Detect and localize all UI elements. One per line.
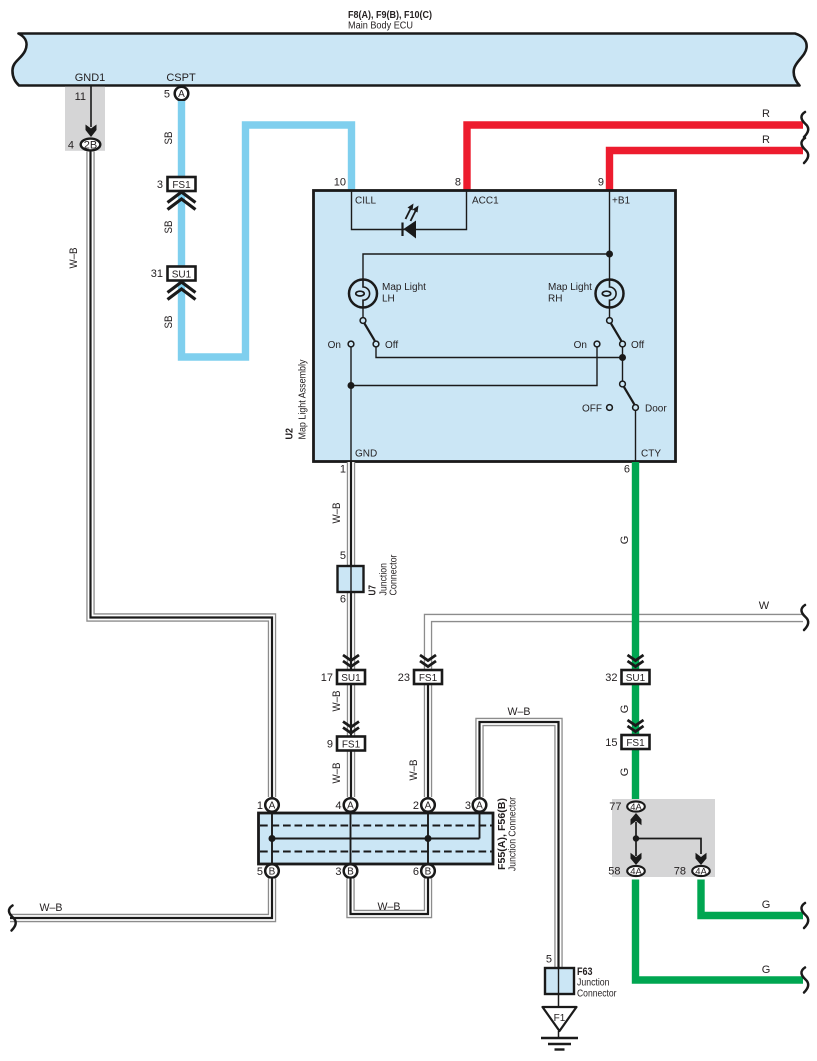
connector U7 junction	[338, 566, 364, 592]
bulb Map Light RH	[596, 280, 624, 308]
chevrons into SU1 (17)	[343, 655, 359, 667]
svg-text:CSPT: CSPT	[166, 72, 196, 84]
svg-text:3: 3	[335, 866, 341, 878]
svg-text:A: A	[269, 801, 276, 812]
wire On bus	[351, 347, 597, 386]
svg-text:G: G	[619, 536, 631, 545]
connector FS1 (15)	[622, 735, 650, 749]
svg-text:2B: 2B	[84, 139, 97, 151]
svg-text:FS1: FS1	[419, 673, 438, 684]
wire G from 58 to right	[636, 880, 804, 981]
chevrons into FS1 (9)	[343, 722, 359, 734]
wire W from right to 2(A)	[428, 618, 803, 670]
wire G from CTY	[632, 462, 639, 800]
gray shield GND1	[65, 87, 105, 151]
svg-text:On: On	[574, 340, 587, 351]
connector 4A (78)	[692, 866, 710, 876]
node junction On bus	[348, 382, 355, 389]
svg-text:SB: SB	[163, 316, 175, 329]
break mark R lower	[801, 138, 808, 163]
svg-text:Connector: Connector	[577, 989, 617, 1000]
wire W-B from 5(B) to left	[10, 879, 272, 919]
svg-text:RH: RH	[548, 294, 562, 305]
wire R upper (ACC1)	[467, 125, 803, 190]
svg-text:8: 8	[455, 177, 461, 189]
svg-text:F55(A), F56(B): F55(A), F56(B)	[497, 798, 508, 870]
svg-text:CILL: CILL	[355, 196, 377, 207]
wire pin4A-3B	[350, 813, 352, 864]
connector SU1 (32)	[622, 670, 650, 684]
svg-text:OFF: OFF	[582, 404, 602, 415]
svg-text:R: R	[762, 134, 770, 146]
svg-text:5: 5	[164, 89, 170, 101]
arrow up to 77	[635, 822, 637, 839]
connector F63 junction	[545, 968, 574, 994]
svg-text:CTY: CTY	[641, 449, 661, 460]
connector SU1 (17)	[337, 670, 365, 684]
connector 4A (58)	[627, 866, 645, 876]
svg-text:4: 4	[68, 140, 74, 152]
chevrons FS1 (3)	[168, 192, 196, 210]
connector FS1 (3)	[168, 177, 196, 191]
wire G from 78 to right	[701, 880, 803, 916]
svg-text:W–B: W–B	[508, 706, 531, 718]
dashed bus B	[260, 851, 492, 853]
node junction	[269, 835, 276, 842]
connector 4A (77)	[627, 801, 645, 811]
node junction	[425, 835, 432, 842]
svg-text:SB: SB	[163, 132, 175, 145]
svg-text:Junction: Junction	[577, 978, 610, 989]
switch OFF/Door	[620, 381, 626, 387]
svg-text:6: 6	[340, 594, 346, 606]
svg-text:6: 6	[624, 464, 630, 476]
wire W-B from 3(A) to F63	[480, 722, 559, 968]
svg-text:+B1: +B1	[612, 196, 631, 207]
svg-text:On: On	[328, 340, 341, 351]
wire W-B from 2B to 1(A)	[91, 152, 273, 798]
svg-text:SU1: SU1	[626, 673, 646, 684]
svg-text:1: 1	[257, 800, 263, 812]
svg-text:G: G	[762, 964, 771, 976]
svg-text:10: 10	[334, 177, 346, 189]
svg-text:Map Light: Map Light	[382, 282, 426, 293]
svg-text:W–B: W–B	[378, 901, 401, 913]
node junction Off bus	[619, 354, 626, 361]
svg-text:W–B: W–B	[331, 691, 343, 712]
svg-text:Connector: Connector	[389, 554, 400, 596]
svg-text:W: W	[759, 600, 770, 612]
svg-text:Off: Off	[631, 340, 644, 351]
svg-text:W–B: W–B	[408, 760, 420, 781]
svg-text:5: 5	[546, 954, 552, 966]
chevrons into FS1 (23)	[420, 655, 436, 667]
svg-text:11: 11	[75, 91, 86, 103]
wire Off bus	[376, 347, 623, 358]
svg-text:FS1: FS1	[626, 738, 645, 749]
bulb Map Light LH	[349, 280, 377, 308]
svg-text:17: 17	[321, 672, 333, 684]
svg-text:78: 78	[674, 866, 686, 878]
break mark R upper	[801, 112, 808, 137]
svg-text:F63: F63	[577, 966, 593, 978]
svg-text:W–B: W–B	[68, 248, 80, 269]
svg-text:W–B: W–B	[331, 763, 343, 784]
box U2 Map Light Assembly	[314, 191, 676, 462]
junction connector F55/F56 box	[259, 813, 494, 864]
svg-text:U7: U7	[368, 585, 379, 596]
svg-text:4A: 4A	[630, 867, 642, 878]
wire pin2A-6B	[427, 813, 429, 864]
svg-text:GND: GND	[355, 449, 377, 460]
svg-text:4A: 4A	[695, 867, 707, 878]
svg-text:Off: Off	[385, 340, 398, 351]
svg-text:2: 2	[413, 800, 419, 812]
svg-text:F1: F1	[554, 1013, 566, 1024]
svg-text:SU1: SU1	[172, 270, 192, 281]
break mark G lower	[801, 968, 808, 993]
svg-text:A: A	[476, 801, 483, 812]
switch LH On/Off	[362, 309, 364, 318]
svg-text:FS1: FS1	[342, 740, 361, 751]
chevrons into FS1 (15)	[628, 720, 644, 732]
svg-text:B: B	[269, 867, 276, 878]
svg-text:9: 9	[327, 739, 333, 751]
ground	[558, 1031, 560, 1038]
internal bus wire	[272, 838, 480, 840]
svg-text:R: R	[762, 108, 770, 120]
svg-text:4A: 4A	[630, 802, 642, 813]
break mark left	[9, 906, 16, 931]
break mark G upper	[801, 903, 808, 928]
wire pin1A-5B	[271, 813, 273, 864]
connector FS1 (9)	[337, 737, 365, 751]
svg-text:58: 58	[608, 866, 620, 878]
Main Body ECU band	[12, 34, 806, 86]
chevrons SU1 (31)	[168, 282, 196, 300]
svg-text:3: 3	[157, 179, 163, 191]
svg-text:F8(A), F9(B), F10(C): F8(A), F9(B), F10(C)	[348, 10, 432, 21]
svg-text:G: G	[619, 768, 631, 777]
node junction 4A	[633, 835, 639, 841]
ground point F1	[543, 1007, 577, 1031]
arrow down to 58	[635, 839, 637, 857]
wire W-B loop 3(B)-6(B)	[351, 879, 429, 915]
svg-text:LH: LH	[382, 294, 395, 305]
wire W-B GND chain	[347, 462, 355, 797]
connector SU1 (31)	[168, 267, 196, 281]
wire GND1 to 2B	[90, 85, 92, 127]
switch RH On/Off	[609, 309, 611, 318]
svg-text:Main Body ECU: Main Body ECU	[348, 21, 413, 32]
connector FS1 (23)	[414, 670, 442, 684]
svg-text:W–B: W–B	[40, 902, 63, 914]
svg-text:B: B	[425, 867, 432, 878]
chevrons into SU1 (32)	[628, 655, 644, 667]
svg-text:SU1: SU1	[341, 673, 361, 684]
wire LH On to GND	[350, 347, 352, 462]
gray shield 4A	[612, 799, 715, 877]
svg-text:Junction Connector: Junction Connector	[508, 796, 519, 871]
svg-text:A: A	[425, 801, 432, 812]
wire Door to CTY	[635, 411, 637, 463]
connector A (CSPT)	[175, 87, 189, 101]
break mark W	[801, 605, 808, 630]
wire SB from CSPT to CILL	[182, 101, 352, 357]
svg-text:G: G	[619, 705, 631, 714]
svg-text:Map Light Assembly: Map Light Assembly	[298, 360, 309, 440]
svg-text:SB: SB	[163, 221, 175, 234]
svg-text:ACC1: ACC1	[472, 196, 499, 207]
svg-text:6: 6	[413, 866, 419, 878]
LED D (map lamp illumination)	[401, 223, 403, 237]
svg-text:Door: Door	[645, 404, 667, 415]
wire pin3A drop	[479, 813, 481, 839]
svg-text:32: 32	[605, 672, 617, 684]
wire +B1 leg	[609, 191, 611, 279]
arrow down to 78	[696, 853, 707, 865]
node junction +B1	[606, 251, 613, 258]
svg-text:3: 3	[465, 800, 471, 812]
svg-text:A: A	[178, 89, 185, 100]
svg-text:4: 4	[335, 800, 341, 812]
svg-text:1: 1	[340, 464, 346, 476]
svg-text:G: G	[762, 899, 771, 911]
svg-text:Map Light: Map Light	[548, 282, 592, 293]
svg-text:77: 77	[609, 801, 621, 813]
svg-text:FS1: FS1	[172, 180, 191, 191]
wire cross to LH bulb	[363, 254, 610, 279]
svg-text:5: 5	[257, 866, 263, 878]
svg-text:U2: U2	[285, 428, 296, 440]
wire R lower (+B1)	[610, 151, 804, 191]
svg-text:W–B: W–B	[331, 503, 343, 524]
dashed bus A	[260, 825, 492, 827]
wire to 78	[636, 839, 701, 855]
svg-text:A: A	[347, 801, 354, 812]
wire CILL leg	[352, 191, 467, 230]
svg-text:5: 5	[340, 550, 346, 562]
svg-text:B: B	[347, 867, 354, 878]
svg-text:15: 15	[605, 737, 617, 749]
svg-text:23: 23	[398, 672, 410, 684]
connector 2B	[81, 139, 101, 151]
wire F63 to ground	[558, 994, 560, 1007]
svg-text:GND1: GND1	[75, 72, 106, 84]
svg-text:9: 9	[598, 177, 604, 189]
svg-text:31: 31	[151, 268, 163, 280]
